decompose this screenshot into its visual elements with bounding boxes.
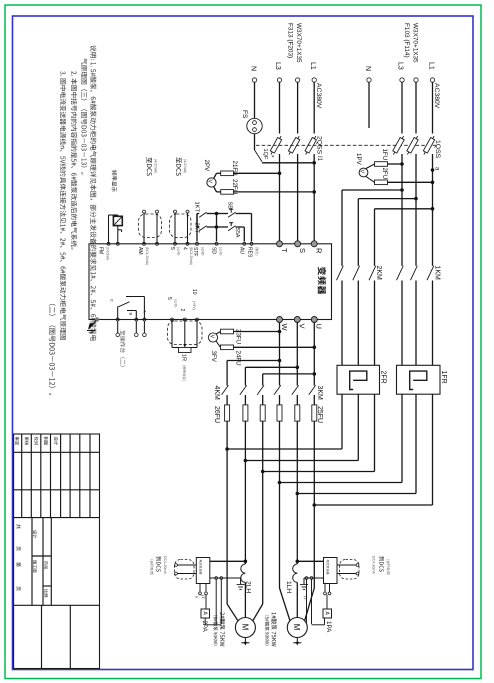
svg-text:3FV: 3FV bbox=[210, 351, 217, 363]
svg-text:5: 5 bbox=[166, 297, 172, 300]
svg-text:V: V bbox=[298, 324, 307, 329]
svg-text:L3: L3 bbox=[274, 62, 281, 70]
wire 4KM drop1 lower bbox=[226, 421, 228, 604]
wire T phase down bbox=[279, 154, 281, 241]
wire 2FR out 1 bbox=[341, 394, 343, 449]
fuse 25FU pole 2 bbox=[295, 405, 300, 421]
svg-text:A: A bbox=[143, 310, 148, 313]
node L1 (left supply terminal) bbox=[312, 78, 316, 82]
fuse 23FU bbox=[216, 332, 221, 335]
wire SB to RES bbox=[236, 213, 252, 215]
wire FS to 1QF bbox=[254, 134, 256, 150]
title block page texts bbox=[16, 524, 21, 529]
svg-text:2FU: 2FU bbox=[381, 168, 388, 180]
svg-text:W: W bbox=[280, 324, 289, 332]
svg-text:AC380V: AC380V bbox=[433, 83, 440, 109]
wire L3 to 2QSS bbox=[279, 82, 281, 133]
voltmeter 1PV bbox=[359, 168, 368, 177]
wire motor feed left diag3 bbox=[253, 604, 263, 621]
contactor 3KM pole 3 bbox=[309, 385, 316, 395]
svg-text:FM: FM bbox=[97, 247, 103, 254]
current transformer 2LH bbox=[241, 564, 246, 582]
terminal T bbox=[277, 241, 283, 247]
wire SA to AU bbox=[236, 226, 245, 228]
svg-text:1KT: 1KT bbox=[194, 202, 200, 213]
svg-text:21FU: 21FU bbox=[231, 161, 238, 176]
wire 3KM drop2 lower bbox=[296, 421, 298, 564]
svg-text:(4-20mA): (4-20mA) bbox=[154, 159, 158, 173]
svg-text:3KM: 3KM bbox=[316, 386, 323, 401]
wire 4KM drop3 upper bbox=[262, 374, 264, 386]
wire W tap bbox=[278, 359, 282, 363]
wire block stubs right bbox=[324, 584, 326, 593]
contactor 4KM pole 3 bbox=[257, 385, 264, 395]
node N right bbox=[367, 78, 371, 82]
contactor 2KM pole 1 bbox=[337, 266, 344, 281]
surge arrester FS bbox=[247, 118, 262, 133]
svg-text:AM: AM bbox=[137, 247, 143, 255]
svg-text:STF: STF bbox=[192, 247, 198, 256]
fuse 22FU bbox=[221, 190, 234, 195]
wire N right stub bbox=[368, 82, 370, 128]
svg-text:n: n bbox=[195, 596, 200, 598]
notes text line 2 bbox=[81, 58, 87, 174]
svg-text:4KM: 4KM bbox=[213, 386, 220, 401]
terminal S bbox=[295, 241, 301, 247]
svg-text:W3X70+1X35: W3X70+1X35 bbox=[295, 23, 302, 63]
wire L2r upper bbox=[415, 82, 417, 133]
svg-text:26FU: 26FU bbox=[213, 406, 220, 423]
thermal relay 2FR box bbox=[337, 365, 380, 394]
svg-text:(DC4-20mA): (DC4-20mA) bbox=[145, 247, 149, 265]
inverter box 变频器 bbox=[89, 244, 332, 320]
terminal 4 bbox=[186, 242, 189, 245]
notes text line 1 bbox=[90, 45, 96, 341]
motor M1 bbox=[287, 618, 307, 638]
node L3r-1FU bbox=[400, 162, 404, 166]
svg-text:C: C bbox=[110, 299, 115, 302]
contactor 1KM pole 3 bbox=[427, 266, 434, 281]
fuse 26FU pole 2 bbox=[243, 405, 248, 421]
contactor 1KM pole 1 bbox=[397, 266, 404, 281]
svg-text:S: S bbox=[298, 248, 307, 253]
svg-text:4: 4 bbox=[182, 247, 188, 250]
svg-text:22FU: 22FU bbox=[231, 179, 238, 194]
terminal V bbox=[294, 317, 300, 323]
wire block stubs left bbox=[199, 584, 201, 593]
title block header texts bbox=[15, 437, 19, 445]
switch 2QSS pole L3 bbox=[269, 135, 283, 156]
linkage dashed line 2QSS-1QSS bbox=[256, 144, 436, 146]
label motor1 name bbox=[271, 613, 276, 647]
wire L1 to 2QSS bbox=[313, 82, 315, 133]
node junction T-21FU bbox=[278, 172, 282, 176]
svg-text:23FU: 23FU bbox=[235, 329, 242, 344]
svg-text:AU: AU bbox=[238, 247, 244, 254]
shielded cable to DCS 2 bbox=[170, 214, 192, 238]
svg-text:(4-20mA): (4-20mA) bbox=[183, 159, 187, 173]
wire 3KM drop3 lower bbox=[313, 421, 315, 588]
svg-text:AC380V: AC380V bbox=[315, 83, 322, 109]
terminal fault A bbox=[143, 318, 146, 321]
wire ground left bbox=[210, 577, 241, 579]
svg-text:2PA: 2PA bbox=[201, 621, 208, 633]
node L1 right bbox=[430, 78, 434, 82]
notes text line 4 bbox=[60, 71, 66, 340]
svg-text:2KT: 2KT bbox=[194, 223, 200, 234]
wire V down bbox=[296, 323, 298, 386]
pushbutton SB bbox=[228, 212, 236, 217]
contactor 4KM pole 2 bbox=[240, 385, 247, 395]
wire block to CT right bbox=[297, 560, 323, 562]
svg-text:DC4-20mA: DC4-20mA bbox=[372, 556, 376, 574]
shielded cable to DCS 1 bbox=[139, 214, 162, 238]
svg-text:V: V bbox=[359, 170, 365, 174]
fuse 25FU pole 1 bbox=[277, 405, 282, 421]
terminal W bbox=[277, 317, 283, 323]
svg-text:(1': (1' bbox=[201, 595, 206, 600]
contactor 3KM pole 1 bbox=[274, 385, 281, 395]
wire V tap bbox=[296, 366, 300, 370]
switch 1QSS pole L1 bbox=[422, 135, 436, 156]
wire node to SB bbox=[217, 213, 229, 215]
wire 21FU line bbox=[217, 172, 222, 174]
wire S phase down bbox=[297, 154, 299, 241]
wires to potentiometer bbox=[171, 320, 173, 348]
terminal 10 +5V bbox=[196, 318, 199, 321]
contact 2KT bbox=[199, 226, 206, 231]
fuse 21FU bbox=[221, 171, 234, 176]
node L3 right bbox=[400, 78, 404, 82]
label 至DCS 2 bbox=[176, 157, 181, 175]
svg-text:1QF: 1QF bbox=[262, 149, 268, 160]
voltmeter 3FV bbox=[208, 333, 217, 342]
svg-text:1PV: 1PV bbox=[355, 153, 362, 166]
node a bbox=[431, 168, 435, 172]
svg-text:L3: L3 bbox=[397, 62, 404, 70]
svg-text:L1: L1 bbox=[309, 62, 316, 70]
fault relay changeover contact bbox=[117, 306, 119, 319]
wire 4KM drop1 upper bbox=[226, 361, 228, 386]
terminal fault C bbox=[116, 318, 119, 321]
current transformer 1LH bbox=[293, 564, 298, 582]
wire 1FR out 3 bbox=[432, 394, 434, 505]
wire motor feed left diag1 bbox=[227, 604, 238, 621]
node L2 right bbox=[414, 78, 418, 82]
ammeter 2PA bbox=[205, 595, 207, 609]
svg-text:1R: 1R bbox=[181, 354, 187, 361]
wire 4KM drop2 lower bbox=[244, 421, 246, 564]
svg-text:1FR: 1FR bbox=[440, 371, 447, 384]
node L2 (left supply terminal) bbox=[295, 78, 299, 82]
node SD link top bbox=[215, 212, 219, 216]
terminal 5 common bbox=[171, 318, 174, 321]
contactor 1KM pole 2 bbox=[411, 266, 418, 281]
wire U tap bbox=[313, 372, 317, 376]
shielded cable to 1R bbox=[168, 321, 203, 345]
junction box left bbox=[196, 558, 210, 584]
svg-text:1QSS: 1QSS bbox=[434, 140, 441, 159]
wire 1KT to node bbox=[207, 213, 217, 215]
contactor 3KM pole 2 bbox=[292, 385, 299, 395]
svg-text:5: 5 bbox=[169, 247, 175, 250]
svg-text:T: T bbox=[280, 248, 289, 253]
wire 2KT rail bbox=[196, 214, 198, 228]
terminal R bbox=[311, 241, 317, 247]
motor M2 bbox=[235, 618, 255, 638]
wire L3r upper bbox=[401, 82, 403, 133]
svg-text:24FU: 24FU bbox=[235, 351, 242, 366]
wire tap to 2KM wire1 bbox=[400, 188, 404, 192]
label 频率显示 bbox=[112, 170, 117, 191]
label 变频器 bbox=[318, 267, 327, 295]
terminal 2 bbox=[183, 318, 186, 321]
label 到DCS left bbox=[150, 559, 153, 575]
svg-text:S5A: S5A bbox=[234, 228, 240, 238]
svg-text:(1': (1' bbox=[304, 596, 309, 601]
frequency meter FM bbox=[113, 216, 122, 225]
wire 1PA loop bbox=[324, 618, 326, 625]
svg-text:I1: I1 bbox=[316, 156, 322, 162]
wire 2KT to node bbox=[207, 226, 217, 228]
CT secondary terminals left bbox=[215, 577, 218, 580]
svg-text:L1: L1 bbox=[427, 62, 434, 70]
label 至操作台 bbox=[120, 330, 126, 366]
wire SD riser bbox=[216, 214, 218, 242]
wire L1r upper bbox=[432, 82, 434, 133]
notes text line 3 bbox=[71, 71, 77, 249]
svg-text:(+5V): (+5V) bbox=[192, 301, 196, 310]
svg-text:DC4-20mA: DC4-20mA bbox=[163, 556, 167, 574]
terminal STF bbox=[196, 242, 199, 245]
svg-text:10: 10 bbox=[191, 289, 197, 295]
fuse 2FU bbox=[366, 177, 375, 183]
wire 1FR out 2 bbox=[415, 394, 417, 493]
breaker 1QF bbox=[255, 150, 263, 162]
switch 2QSS pole L2 bbox=[287, 135, 301, 156]
ammeter 1PA bbox=[326, 595, 328, 609]
svg-text:2KM: 2KM bbox=[375, 266, 382, 281]
terminal fault B bbox=[135, 318, 138, 321]
voltmeter 2PV bbox=[207, 178, 216, 187]
wire L1r down bbox=[432, 154, 434, 266]
potentiometer 1R bbox=[179, 348, 192, 353]
svg-text:SD: SD bbox=[211, 247, 217, 254]
wire L3r down bbox=[401, 154, 403, 266]
terminal AM bbox=[143, 242, 146, 245]
cable to DCS right bbox=[340, 560, 360, 580]
terminal FM bbox=[107, 242, 110, 245]
wire motor feed left mid bbox=[244, 582, 246, 617]
svg-text:SB: SB bbox=[227, 202, 233, 210]
svg-text:25FU: 25FU bbox=[316, 406, 323, 423]
terminal U bbox=[311, 317, 317, 323]
title block stage texts bbox=[33, 530, 37, 538]
svg-text:M: M bbox=[240, 624, 249, 631]
fuse 24FU bbox=[216, 341, 221, 347]
svg-text:N: N bbox=[364, 66, 371, 71]
svg-text:(0-10mA): (0-10mA) bbox=[106, 247, 110, 260]
node L1r-2FU bbox=[431, 181, 435, 185]
wire 1FR out 1 bbox=[401, 394, 403, 482]
svg-text:2FR: 2FR bbox=[380, 371, 387, 384]
wire 1QF to R-wire bbox=[262, 162, 314, 164]
notes text line 5 bbox=[49, 304, 56, 395]
junction box right bbox=[324, 558, 338, 584]
svg-text:U: U bbox=[315, 324, 324, 329]
node SD link bottom bbox=[215, 225, 219, 229]
wire motor feed right mid bbox=[296, 582, 298, 617]
wire 2FR out 3 bbox=[374, 394, 376, 471]
wire ground right bbox=[304, 577, 324, 579]
wire 22FU line bbox=[217, 191, 222, 193]
thermal relay 1FR box bbox=[397, 365, 441, 394]
wire motor feed right diag3 bbox=[305, 588, 315, 621]
node N (left supply terminal) bbox=[252, 78, 256, 82]
wire 3KM drop1 lower bbox=[279, 421, 281, 588]
terminal 5 bbox=[174, 242, 177, 245]
node W-23FU bbox=[278, 330, 282, 334]
svg-text:1FU: 1FU bbox=[381, 149, 388, 161]
wire 2PV stubs bbox=[214, 173, 217, 178]
terminal RES bbox=[250, 242, 253, 245]
fuse 25FU pole 3 bbox=[312, 405, 317, 421]
contactor 2KM pole 3 bbox=[369, 266, 376, 281]
title block grid bbox=[14, 434, 100, 669]
terminal SD bbox=[215, 242, 218, 245]
terminal AU bbox=[243, 242, 246, 245]
svg-text:M: M bbox=[292, 624, 301, 631]
node junction R-22FU bbox=[312, 190, 316, 194]
node L3 (left supply terminal) bbox=[277, 78, 281, 82]
svg-text:1KM: 1KM bbox=[434, 266, 441, 281]
switch 1QSS pole L3 bbox=[391, 135, 405, 156]
svg-text:N: N bbox=[249, 66, 256, 71]
contactor 4KM pole 1 bbox=[222, 385, 229, 395]
fuse 1FU bbox=[366, 164, 375, 169]
svg-text:2: 2 bbox=[179, 309, 185, 312]
wire R phase down bbox=[313, 154, 315, 241]
wire tap to 2KM wire2 bbox=[414, 197, 418, 201]
wire W down bbox=[279, 323, 281, 386]
svg-text:W3X70+1X35: W3X70+1X35 bbox=[412, 23, 419, 63]
wire L2r down bbox=[415, 154, 417, 266]
wire node to SA bbox=[217, 226, 229, 228]
svg-text:RES: RES bbox=[247, 247, 253, 258]
wire 4KM drop3 lower bbox=[262, 421, 264, 604]
node U-24FU bbox=[313, 346, 317, 350]
contactor 2KM pole 2 bbox=[353, 266, 360, 281]
wire U down bbox=[313, 323, 315, 386]
wire motor feed right diag1 bbox=[280, 588, 291, 621]
fuse 26FU pole 3 bbox=[260, 405, 265, 421]
wire STF riser bbox=[196, 214, 198, 242]
label motor2 name bbox=[220, 612, 225, 646]
selector switch SA bbox=[228, 226, 236, 231]
wires 5-4 cable bbox=[174, 213, 176, 244]
wire 4KM drop2 upper bbox=[244, 367, 246, 385]
svg-text:2PV: 2PV bbox=[203, 160, 210, 173]
CT secondary terminals right bbox=[305, 577, 308, 580]
svg-text:1LH: 1LH bbox=[285, 581, 292, 593]
fuse 26FU pole 1 bbox=[225, 405, 230, 421]
wire 2PA loop bbox=[204, 618, 206, 625]
svg-text:R: R bbox=[315, 248, 324, 254]
switch 2QSS pole L1 bbox=[304, 135, 318, 156]
wire 2FR out 2 bbox=[357, 394, 359, 460]
svg-text:B: B bbox=[129, 313, 134, 316]
switch 1QSS pole L2 bbox=[405, 135, 419, 156]
wires AM cable bbox=[143, 213, 145, 244]
wire block to CT left bbox=[210, 560, 246, 562]
svg-text:FS: FS bbox=[241, 110, 248, 119]
cable to DCS left bbox=[175, 560, 195, 580]
wire N drop to FS bbox=[254, 82, 256, 118]
wire tap to 2KM wire3 bbox=[431, 207, 435, 211]
wire L2 to 2QSS bbox=[297, 82, 299, 133]
label 至DCS 1 bbox=[147, 157, 152, 175]
svg-text:F313 (F203): F313 (F203) bbox=[287, 23, 294, 58]
svg-text:V: V bbox=[207, 180, 213, 184]
svg-text:F103 (F114): F103 (F114) bbox=[403, 23, 410, 58]
svg-text:1PA: 1PA bbox=[325, 621, 332, 633]
contact 1KT bbox=[199, 212, 206, 217]
inverter ground terminal bbox=[95, 317, 99, 321]
